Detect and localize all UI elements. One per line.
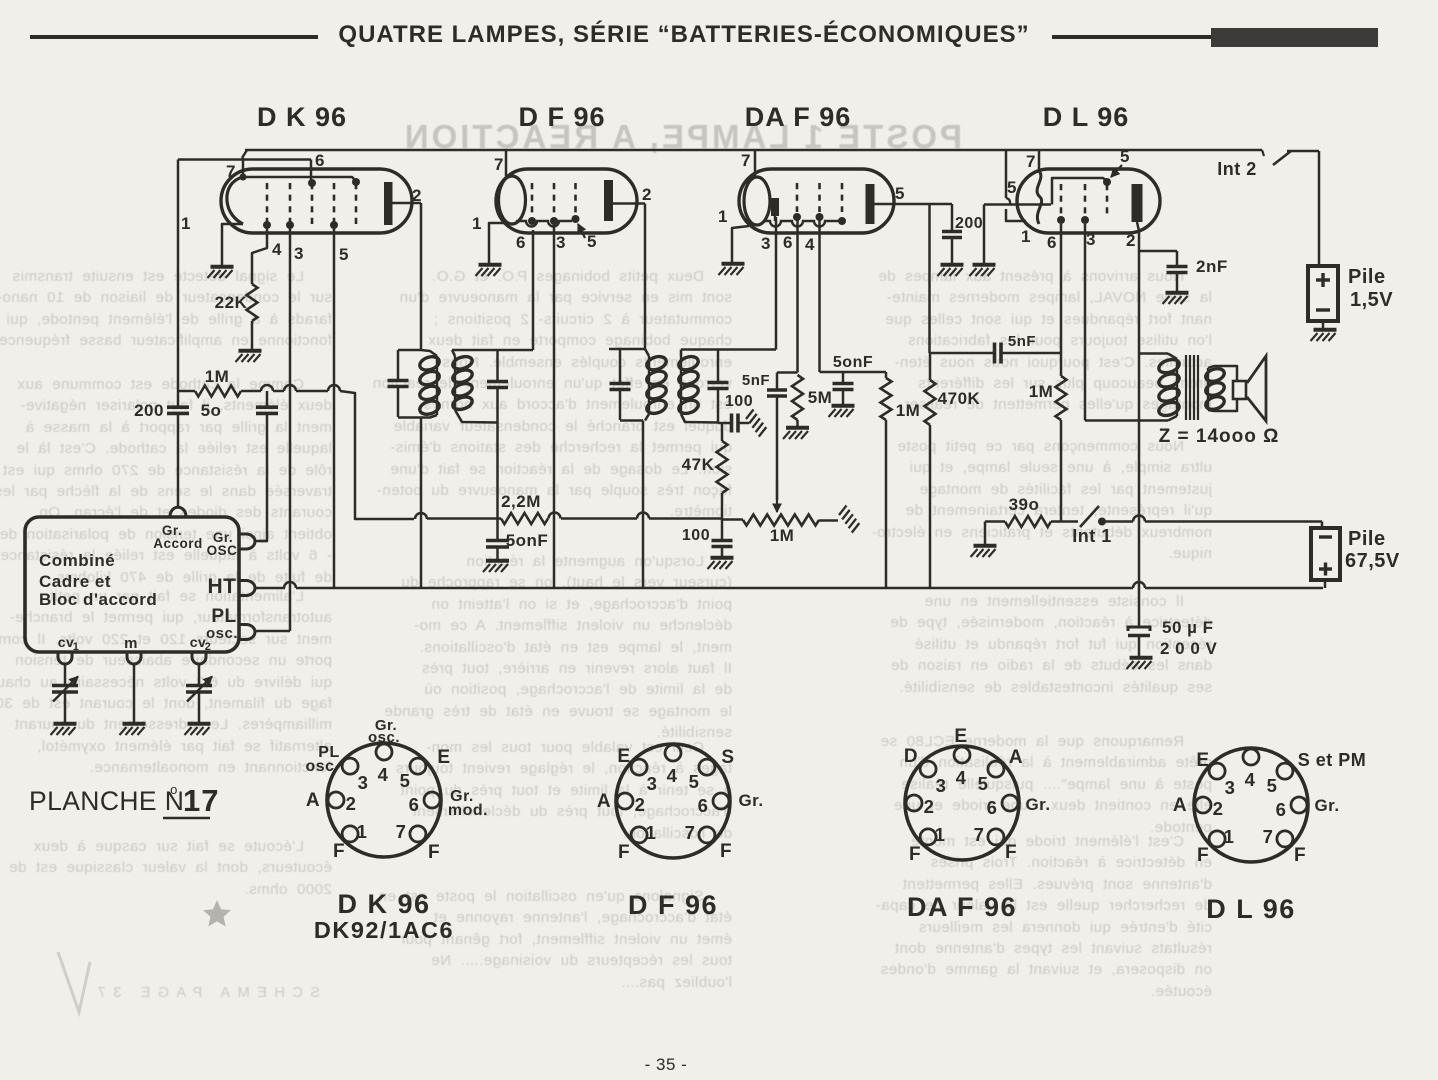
svg-text:3: 3	[936, 775, 947, 796]
wire: DAF96 pin4	[818, 219, 821, 372]
svg-text:5onF: 5onF	[833, 354, 873, 371]
wire: DAF96 pin6 (grid)	[796, 219, 799, 373]
transformer core	[1185, 355, 1187, 420]
header rule right	[1052, 35, 1213, 39]
tube DK96 (converter)	[181, 151, 422, 264]
ground 50µF	[1130, 656, 1153, 660]
svg-text:100: 100	[682, 527, 710, 544]
svg-text:2: 2	[635, 794, 646, 815]
terminal HT	[239, 581, 255, 596]
svg-text:L'alimentation se fait par un: L'alimentation se fait par un petitautot…	[0, 588, 332, 776]
wire: tank1 to HT rail	[420, 418, 423, 589]
ground cv1	[54, 722, 77, 726]
svg-text:osc: osc	[305, 758, 334, 775]
coil L1 (osc)	[418, 354, 441, 372]
wire: IF primary to HT rail	[642, 421, 645, 589]
svg-text:F: F	[428, 842, 440, 863]
svg-text:2: 2	[642, 185, 652, 204]
svg-text:Lorsqu'on augmente la réaction: Lorsqu'on augmente la réaction(curseur v…	[384, 553, 732, 741]
capacitor (IF secondary)	[717, 350, 720, 383]
resistor 47K	[717, 441, 728, 493]
svg-text:2 0 0 V: 2 0 0 V	[1160, 639, 1218, 658]
svg-text:mod.: mod.	[448, 802, 488, 819]
svg-text:200: 200	[134, 401, 164, 420]
terminal cv1	[58, 652, 72, 664]
svg-text:1: 1	[357, 821, 368, 842]
coil L2	[451, 354, 474, 371]
resistor 390 (filament dropper)	[985, 520, 1005, 523]
svg-text:4: 4	[1245, 769, 1256, 790]
svg-text:5: 5	[978, 773, 989, 794]
svg-text:2,2M: 2,2M	[501, 492, 541, 511]
resistor 2,2M	[501, 513, 548, 524]
wire: DK96 pin6 drop	[310, 160, 313, 182]
svg-text:47K: 47K	[682, 455, 715, 474]
wire: top filament rail (1.5V +)	[245, 149, 1262, 152]
wire: DAF96 pin1 to ground	[732, 226, 749, 262]
svg-text:7: 7	[1263, 826, 1274, 847]
wire: DF96 pin1 to ground	[489, 223, 504, 263]
svg-text:1: 1	[1021, 227, 1031, 246]
svg-text:5: 5	[1007, 178, 1017, 197]
tuned circuit 3: IF primary	[609, 348, 645, 351]
svg-text:D K 96: D K 96	[337, 889, 430, 919]
svg-text:5: 5	[689, 771, 700, 792]
svg-text:Combiné: Combiné	[39, 551, 115, 570]
wire: DF96 pin7 stub	[505, 150, 508, 176]
svg-text:6: 6	[987, 797, 998, 818]
wire: antenna branch to grid line	[178, 158, 311, 161]
svg-text:DK92/1AC6: DK92/1AC6	[314, 917, 454, 943]
svg-text:7: 7	[396, 821, 407, 842]
svg-text:HT: HT	[208, 575, 237, 598]
svg-text:Gr.: Gr.	[1025, 795, 1050, 814]
capacitor 5onF (AGC)	[486, 539, 509, 543]
svg-text:D L 96: D L 96	[1043, 102, 1130, 132]
wire: DL96 pin3	[1084, 224, 1087, 421]
speaker voice coil + cone	[1208, 366, 1237, 381]
svg-text:7: 7	[226, 162, 236, 181]
switch Int 2	[1273, 151, 1291, 165]
tube socket DL96	[1173, 748, 1366, 924]
tube socket DK96	[305, 717, 488, 943]
svg-text:2nF: 2nF	[1196, 257, 1228, 276]
wire: DL96 grid return to ground	[983, 205, 986, 264]
wire: DK96 pin2 (plate) to osc tank	[420, 203, 423, 350]
wire: DK96 pin4 to 22K	[252, 226, 267, 284]
svg-text:Int 1: Int 1	[1072, 526, 1112, 546]
output transformer secondary	[1204, 366, 1226, 383]
svg-text:4: 4	[805, 235, 815, 254]
header rule left	[30, 35, 318, 39]
ground DL96 return	[973, 263, 996, 267]
variable capacitor cv2	[198, 664, 201, 685]
wire: DK96 pin3 down to PL osc	[289, 226, 292, 631]
ground 50nF	[486, 559, 509, 563]
ground 200pF	[941, 263, 964, 267]
svg-text:470K: 470K	[938, 389, 981, 408]
ground cv2	[188, 722, 211, 726]
svg-text:1: 1	[646, 822, 657, 843]
svg-text:6: 6	[409, 794, 420, 815]
resistor 22K	[247, 284, 258, 321]
svg-text:Pile: Pile	[1348, 528, 1386, 550]
capacitor (osc tank)	[388, 379, 409, 383]
resistor 470K (plate load)	[930, 352, 994, 355]
capacitor 200 (IF bypass)	[951, 204, 954, 231]
svg-text:6: 6	[315, 151, 325, 170]
terminal m	[127, 652, 141, 664]
svg-text:4: 4	[378, 764, 389, 785]
svg-text:- 35 -: - 35 -	[645, 1055, 688, 1074]
wire: plate load branch	[928, 204, 931, 353]
capacitor 50µF 200V (filter)	[1128, 627, 1150, 631]
svg-text:S: S	[721, 747, 734, 768]
terminal cv2	[192, 652, 206, 664]
wire: DK96 internal filament-to-g5	[243, 177, 356, 181]
tuned circuit 1: osc coil + cap	[398, 349, 421, 352]
svg-text:D K 96: D K 96	[257, 102, 347, 132]
svg-text:A: A	[1173, 795, 1187, 816]
svg-text:5: 5	[1120, 147, 1130, 166]
svg-text:osc.: osc.	[206, 625, 238, 642]
wire: rail drop to DL96 envelope	[1005, 150, 1008, 198]
svg-text:1: 1	[73, 641, 80, 653]
svg-text:2: 2	[205, 641, 212, 653]
ground 390	[974, 544, 997, 548]
svg-text:3: 3	[358, 772, 369, 793]
wire: DK96 pin1 to ground	[222, 224, 243, 265]
wire: PL osc lead	[255, 630, 290, 633]
svg-text:1M: 1M	[770, 526, 795, 545]
svg-text:5nF: 5nF	[1008, 333, 1036, 350]
ground m	[123, 722, 146, 726]
wire: pot wiper	[776, 399, 779, 500]
header dark bar	[1211, 28, 1378, 47]
svg-text:Int 2: Int 2	[1217, 159, 1257, 179]
svg-text:3: 3	[294, 244, 304, 263]
capacitor 5o (osc grid)	[266, 391, 269, 407]
wire: DL96 pin6 (grid)	[1060, 224, 1063, 376]
wire: Gr.osc lead	[255, 540, 267, 543]
svg-text:F: F	[1197, 845, 1209, 866]
wire: DF96 pin6 to tank2	[532, 230, 535, 350]
svg-text:6: 6	[1276, 799, 1287, 820]
svg-text:39o: 39o	[1009, 495, 1040, 514]
battery Pile 67,5V	[1321, 522, 1324, 529]
svg-text:5: 5	[400, 770, 411, 791]
wire: m to ground	[133, 664, 136, 722]
svg-text:A: A	[1009, 747, 1023, 768]
tube DL96 (output pentode)	[1007, 147, 1160, 252]
svg-text:1M: 1M	[1029, 382, 1054, 401]
svg-text:4: 4	[272, 240, 282, 259]
svg-text:5onF: 5onF	[506, 531, 549, 550]
svg-text:D F 96: D F 96	[518, 102, 605, 132]
svg-text:1: 1	[181, 214, 191, 233]
svg-text:7: 7	[1026, 152, 1036, 171]
svg-text:5o: 5o	[201, 401, 222, 420]
tube socket DF96	[597, 744, 764, 920]
svg-text:3: 3	[1225, 777, 1236, 798]
switch Int 1	[1080, 506, 1099, 527]
tuned circuit 4: IF secondary	[681, 348, 776, 351]
svg-text:DA F 96: DA F 96	[907, 892, 1017, 922]
faint pencil mark	[58, 952, 90, 1012]
svg-text:200: 200	[955, 215, 983, 232]
wire: DAF96 pin3 (diode) to IF secondary	[775, 217, 778, 350]
svg-text:Gr.: Gr.	[738, 791, 763, 810]
resistor 1M (screen feed)	[885, 372, 888, 378]
tube socket DAF96	[904, 726, 1051, 922]
wire: 50pF to Gr.osc terminal	[259, 414, 267, 542]
svg-text:1,5V: 1,5V	[1350, 289, 1393, 311]
terminal PL osc	[239, 625, 255, 640]
svg-text:2: 2	[1213, 798, 1224, 819]
potentiometer 1M (volume)	[722, 518, 743, 521]
capacitor 5nF (DL96 coupling)	[993, 343, 997, 364]
wire: DAF96 pin7 stub	[754, 150, 757, 177]
svg-text:67,5V: 67,5V	[1345, 550, 1400, 572]
terminal hook Gr.Accord	[170, 507, 186, 517]
svg-text:D F 96: D F 96	[628, 890, 718, 920]
wire: plate to output transformer	[1138, 251, 1141, 627]
ground 100pF	[711, 556, 734, 560]
wire: DF96 internal filament link	[516, 221, 572, 227]
svg-text:4: 4	[956, 767, 967, 788]
svg-text:Accord: Accord	[153, 536, 203, 551]
ground 22K	[239, 349, 262, 353]
svg-text:1: 1	[718, 207, 728, 226]
resistor 1M (DL96 grid leak)	[1056, 376, 1067, 420]
svg-text:3: 3	[761, 234, 771, 253]
svg-text:Z = 14ooo Ω: Z = 14ooo Ω	[1159, 426, 1280, 447]
capacitor (tank2)	[496, 350, 499, 381]
svg-text:5: 5	[587, 232, 597, 251]
wire: DL96 internal screen link	[1052, 178, 1107, 205]
ground DAF96 pin1	[722, 262, 745, 266]
svg-text:SCHEMA PAGE 37: SCHEMA PAGE 37	[90, 985, 320, 1001]
svg-text:4: 4	[667, 765, 678, 786]
capacitor 2nF (tone)	[1139, 250, 1177, 253]
svg-text:E: E	[437, 747, 450, 768]
svg-text:E: E	[617, 746, 630, 767]
svg-text:7: 7	[741, 151, 751, 170]
svg-text:D: D	[904, 746, 918, 767]
svg-text:2: 2	[412, 186, 422, 205]
capacitor 100 (detector filter)	[718, 422, 731, 425]
anode plate DK96	[384, 182, 393, 225]
wire: detector node down to 47K	[721, 423, 724, 441]
svg-text:F: F	[1005, 842, 1017, 863]
svg-text:6: 6	[1047, 233, 1057, 252]
svg-text:D L 96: D L 96	[1206, 894, 1296, 924]
svg-text:5: 5	[895, 184, 905, 203]
svg-text:S et PM: S et PM	[1298, 750, 1367, 770]
svg-text:F: F	[720, 841, 732, 862]
capacitor 100 (AGC filter)	[721, 519, 724, 541]
wire: DF96 pin3 (screen) to HT rail	[553, 222, 556, 588]
capacitor 200 (antenna)	[167, 405, 189, 409]
svg-text:5: 5	[339, 245, 349, 264]
wire: DK96 pin7 stub	[242, 158, 245, 176]
wire: DF96 pin2 (plate) down	[644, 204, 647, 350]
anode plate DL96	[1132, 184, 1143, 222]
svg-text:2: 2	[1126, 231, 1136, 250]
svg-text:OSC: OSC	[207, 543, 238, 558]
svg-text:1: 1	[935, 824, 946, 845]
svg-text:3: 3	[1086, 230, 1096, 249]
capacitor (IF primary)	[610, 382, 631, 386]
svg-text:5M: 5M	[808, 388, 833, 407]
anode plate DF96	[604, 180, 613, 221]
wire: DL96 pin2 (plate)	[1137, 222, 1139, 251]
output transformer primary	[1157, 357, 1181, 375]
svg-text:Pile: Pile	[1348, 266, 1386, 288]
ground DF96 pin1	[479, 263, 502, 267]
svg-text:Gr.: Gr.	[1314, 796, 1339, 815]
block: Combiné Cadre et Bloc d accord	[25, 517, 255, 664]
coil L4	[677, 354, 700, 372]
svg-text:100: 100	[725, 393, 753, 410]
wire: screen entry wire DL96	[984, 203, 1051, 206]
svg-text:1: 1	[1224, 826, 1235, 847]
svg-text:5: 5	[1267, 775, 1278, 796]
wire: DAF96 internal filament link	[763, 221, 842, 227]
tube DF96 (IF amplifier)	[472, 155, 652, 252]
svg-text:6: 6	[783, 233, 793, 252]
svg-text:5nF: 5nF	[742, 372, 770, 389]
svg-text:o: o	[170, 782, 178, 797]
svg-text:22K: 22K	[215, 293, 248, 312]
svg-text:F: F	[909, 844, 921, 865]
svg-text:6: 6	[698, 795, 709, 816]
svg-text:DA F 96: DA F 96	[745, 102, 852, 132]
wire: Int1 rail	[1051, 520, 1078, 523]
wire: antenna line	[177, 160, 180, 408]
bleed-through mirrored text from reverse page side	[0, 118, 1213, 1001]
svg-text:1: 1	[472, 214, 482, 233]
wire: DK96 pin5 down to HT rail	[333, 226, 336, 588]
svg-text:F: F	[333, 841, 345, 862]
svg-text:Cadre et: Cadre et	[39, 572, 111, 591]
svg-text:Bloc d'accord: Bloc d'accord	[39, 590, 157, 609]
svg-text:3: 3	[647, 773, 658, 794]
svg-text:E: E	[954, 726, 967, 747]
wire: DAF96 plate node	[893, 203, 952, 206]
wire: DL96 pin7 stub	[1038, 150, 1041, 171]
chassis hatch (pot)	[839, 506, 847, 516]
resistor 5M (grid leak)	[792, 375, 803, 420]
anode plate DAF96	[866, 184, 875, 224]
svg-text:F: F	[1294, 845, 1306, 866]
svg-text:A: A	[597, 791, 611, 812]
svg-text:A: A	[306, 790, 320, 811]
svg-text:6: 6	[516, 233, 526, 252]
ground 5M	[786, 426, 809, 430]
coil L3	[645, 354, 668, 372]
svg-text:2: 2	[346, 793, 357, 814]
svg-text:2: 2	[924, 796, 935, 817]
svg-text:17: 17	[183, 783, 219, 818]
svg-text:7: 7	[685, 822, 696, 843]
variable capacitor cv1	[64, 664, 67, 685]
svg-text:osc.: osc.	[368, 729, 400, 746]
tuned circuit 2: DF96 grid coil + cap	[452, 349, 533, 352]
ground battery 1.5V	[1314, 328, 1337, 332]
decorative faint star	[203, 900, 231, 927]
ground 2nF	[1166, 291, 1189, 295]
svg-text:E: E	[1196, 750, 1209, 771]
wire: oscillator grid line	[178, 390, 195, 393]
svg-text:1M: 1M	[205, 367, 230, 386]
ground 50nF DAF96	[832, 404, 855, 408]
capacitor 5onF (screen bypass)	[842, 372, 845, 383]
ground DK96 pin1	[211, 265, 234, 269]
svg-text:PL: PL	[211, 606, 236, 627]
chassis hatch (100pF)	[746, 410, 754, 420]
terminal Gr.osc	[239, 534, 255, 549]
svg-text:m: m	[124, 635, 138, 652]
svg-text:QUATRE LAMPES, SÉRIE “BATTERIE: QUATRE LAMPES, SÉRIE “BATTERIES-ÉCONOMIQ…	[338, 20, 1029, 48]
wire: HT bottom rail	[255, 587, 285, 590]
svg-text:1M: 1M	[896, 401, 921, 420]
resistor 1M (osc grid leak)	[195, 386, 241, 397]
svg-text:PLANCHE N: PLANCHE N	[29, 786, 184, 816]
svg-text:7: 7	[494, 155, 504, 174]
svg-text:3: 3	[556, 233, 566, 252]
svg-text:50 µ F: 50 µ F	[1162, 618, 1214, 637]
svg-text:7: 7	[974, 824, 985, 845]
battery Pile 1,5V	[1318, 151, 1321, 266]
diode anode DAF96	[771, 198, 779, 216]
svg-text:F: F	[618, 842, 630, 863]
tube DAF96 (detector + AF)	[718, 151, 905, 254]
capacitor 5nF (AF coupling)	[777, 371, 798, 374]
